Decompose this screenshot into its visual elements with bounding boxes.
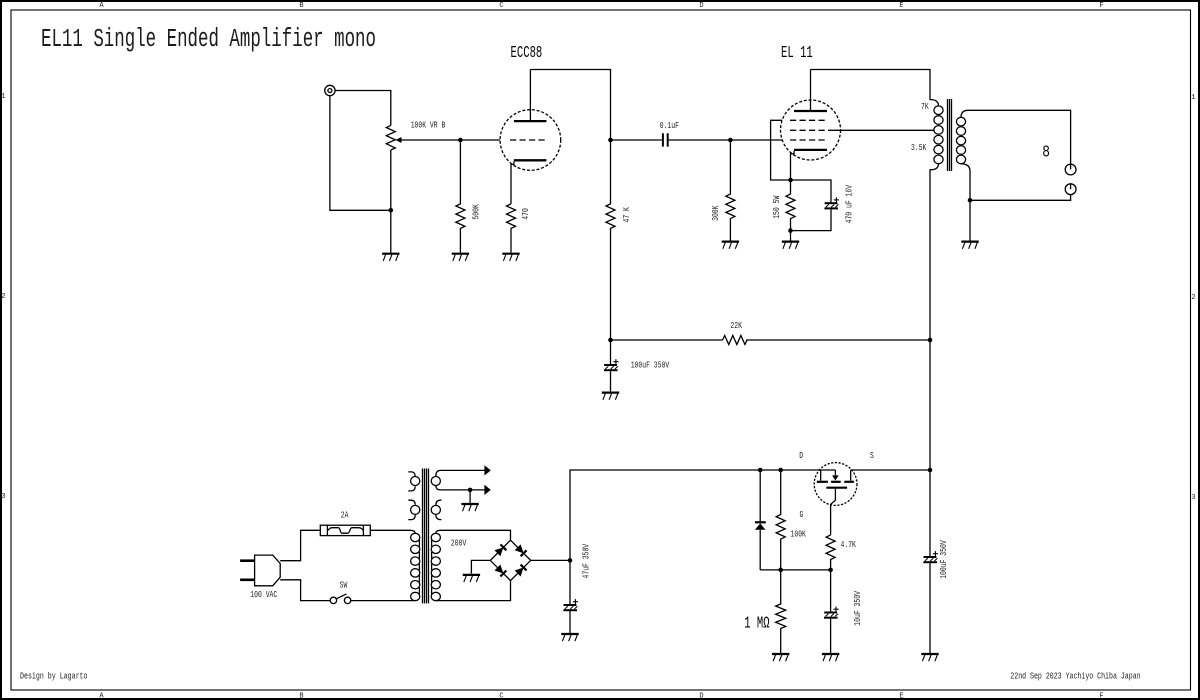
wire g2 to output transformer tap xyxy=(829,129,934,131)
capacitor 0.1uF xyxy=(663,133,668,146)
node reservoir xyxy=(568,558,573,563)
ECC88 grid (dashed) xyxy=(510,139,546,141)
wire g3 tied to cathode xyxy=(771,120,789,180)
wire to ground xyxy=(790,231,792,241)
capacitor 470 uF 16V xyxy=(824,197,839,208)
EL11 plate xyxy=(794,110,827,112)
svg-text:2A: 2A xyxy=(341,510,349,520)
svg-text:C: C xyxy=(499,2,503,10)
svg-text:470: 470 xyxy=(521,208,531,220)
ECC88 plate lead xyxy=(529,70,531,122)
power transformer PT core xyxy=(423,469,429,604)
svg-text:100K: 100K xyxy=(791,530,807,540)
PT right stub winding xyxy=(431,500,441,519)
node grid xyxy=(458,138,463,143)
ECC88 plate xyxy=(514,120,547,122)
wire to 10uF xyxy=(830,570,832,612)
svg-text:470 uF 16V: 470 uF 16V xyxy=(844,184,854,223)
svg-text:200V: 200V xyxy=(451,539,467,549)
svg-text:47uF 350V: 47uF 350V xyxy=(581,543,591,578)
resistor 1 Mohm xyxy=(776,570,786,653)
wire jack sleeve to bottom node xyxy=(330,96,391,211)
svg-text:D: D xyxy=(699,693,703,700)
tube EL11 envelope xyxy=(781,100,841,160)
EL11 g1 (dashed) xyxy=(790,139,827,141)
ground xyxy=(382,254,399,261)
svg-text:F: F xyxy=(1099,2,1103,10)
wire node to coupling cap xyxy=(611,139,662,141)
svg-text:300K: 300K xyxy=(711,205,721,221)
wire 200V bottom to bridge xyxy=(436,581,511,601)
svg-text:100uF 350V: 100uF 350V xyxy=(631,361,670,371)
svg-text:F: F xyxy=(1099,693,1103,700)
fuse 2A xyxy=(320,525,370,535)
zener diode gate protection xyxy=(759,470,761,521)
bridge diode top-right xyxy=(515,544,527,556)
svg-text:D: D xyxy=(799,451,803,461)
PT heater winding (6.3V) xyxy=(431,470,484,490)
arrow heater B xyxy=(484,485,490,495)
bridge diode top-left xyxy=(494,544,506,556)
AC plug 100 VAC xyxy=(255,555,281,586)
ground xyxy=(452,254,469,261)
node pot bottom xyxy=(389,208,394,213)
wire riser to drain rail xyxy=(570,470,835,560)
node rail 100K xyxy=(778,468,783,473)
wire bridge plus to reservoir node xyxy=(531,559,570,561)
node heater ground xyxy=(468,488,473,493)
MOSFET gate lead xyxy=(831,489,836,535)
svg-text:500K: 500K xyxy=(471,204,481,220)
switch SW xyxy=(330,594,351,604)
node cathode xyxy=(788,178,793,183)
OPT secondary top lead to speaker jack xyxy=(961,110,1071,164)
svg-text:EL11 Single Ended Amplifier mo: EL11 Single Ended Amplifier mono xyxy=(41,25,376,54)
wire node to 47uF xyxy=(569,560,571,604)
node rail output xyxy=(928,468,933,473)
MOSFET channel bars xyxy=(817,481,854,483)
wire 10uF to ground xyxy=(830,619,832,653)
svg-text:SW: SW xyxy=(340,581,348,591)
arrow heater A xyxy=(484,465,490,475)
svg-text:22K: 22K xyxy=(730,321,742,331)
ground xyxy=(961,242,978,249)
wire 47uF to ground xyxy=(569,611,571,633)
wire cathode to bypass cap xyxy=(791,180,832,202)
svg-text:8: 8 xyxy=(1042,144,1050,163)
wire 22K to B+ rail xyxy=(746,339,930,341)
svg-text:1: 1 xyxy=(1,93,5,101)
capacitor 47uF 350V xyxy=(563,599,578,610)
svg-text:E: E xyxy=(899,2,903,10)
resistor 300K xyxy=(726,140,735,241)
svg-text:0.1uF: 0.1uF xyxy=(660,121,679,131)
wire 200V top to bridge xyxy=(436,530,511,540)
wire plug to switch xyxy=(280,580,330,601)
wire to ground xyxy=(969,200,971,240)
wire bridge minus to ground xyxy=(471,560,490,573)
svg-text:100 VAC: 100 VAC xyxy=(250,590,277,600)
svg-text:1: 1 xyxy=(1191,94,1195,102)
svg-text:10uF 350V: 10uF 350V xyxy=(853,591,863,626)
svg-text:2: 2 xyxy=(1,293,5,301)
wire jack return xyxy=(970,195,1071,201)
svg-text:3.5K: 3.5K xyxy=(911,143,927,153)
wire gate node xyxy=(760,569,830,571)
ground xyxy=(461,504,478,511)
wire jack to pot top xyxy=(335,91,391,126)
EL11 plate lead xyxy=(810,70,812,112)
wire EL11 plate to output transformer xyxy=(811,70,939,106)
OPT primary bottom lead to B+ rail xyxy=(930,164,939,556)
resistor 22K xyxy=(723,336,748,345)
svg-text:B: B xyxy=(299,2,303,10)
capacitor 100uF 350V xyxy=(604,359,619,370)
MOSFET drain contact xyxy=(820,470,822,481)
node grid EL11 xyxy=(728,138,733,143)
svg-text:100K VR B: 100K VR B xyxy=(411,121,446,131)
node xyxy=(788,228,793,233)
EL11 cathode xyxy=(794,149,827,151)
svg-text:3: 3 xyxy=(1191,494,1195,502)
wire switch to transformer primary bottom xyxy=(351,600,415,602)
ground xyxy=(782,242,799,249)
svg-text:G: G xyxy=(800,510,804,520)
wire grid node to EL11 g1 xyxy=(730,139,782,141)
bridge diode bottom-right xyxy=(515,565,527,577)
wire node to ground xyxy=(390,210,392,252)
wire fuse to transformer primary xyxy=(370,530,415,533)
tube ECC88 envelope xyxy=(500,110,561,171)
svg-text:2: 2 xyxy=(1191,294,1195,302)
capacitor 10uF 350V xyxy=(824,607,839,618)
wire 100uF to ground xyxy=(929,563,931,653)
PT primary winding xyxy=(411,533,420,600)
svg-text:ECC88: ECC88 xyxy=(511,44,543,63)
EL11 g2 (dashed) xyxy=(790,129,829,131)
OPT secondary bottom lead xyxy=(961,164,970,201)
ECC88 cathode xyxy=(514,159,547,161)
wire ECC88 plate top to node xyxy=(530,70,610,141)
pot wiper arrow xyxy=(401,139,460,141)
bridge rectifier frame xyxy=(490,540,530,580)
ground xyxy=(602,393,619,400)
wire node to filter cap xyxy=(610,340,612,364)
svg-text:B: B xyxy=(299,693,303,700)
wire source rail to output node xyxy=(851,469,930,471)
wire wiper to ECC88 grid xyxy=(460,139,500,141)
wire to ground xyxy=(469,490,471,503)
svg-text:47 K: 47 K xyxy=(622,207,632,223)
wire cap to EL11 grid node xyxy=(669,139,731,141)
OPT secondary winding xyxy=(956,117,965,163)
capacitor 100uF 350V output xyxy=(923,551,938,562)
potentiometer 100K VR B xyxy=(386,125,395,150)
resistor 4.7K xyxy=(826,535,835,570)
node secondary return xyxy=(968,198,973,203)
wire node to 22K xyxy=(611,339,723,341)
svg-text:C: C xyxy=(499,693,503,700)
plug prong top xyxy=(240,559,255,562)
svg-text:E: E xyxy=(899,693,903,700)
svg-text:Design by Lagarto: Design by Lagarto xyxy=(20,672,88,682)
speaker jack + xyxy=(1065,164,1076,175)
PT secondary 200V winding xyxy=(431,533,440,600)
node gate divider xyxy=(778,568,783,573)
bridge diode bottom-left xyxy=(494,565,506,577)
ground xyxy=(822,654,839,661)
wire plug to fuse xyxy=(280,530,320,560)
MOSFET substrate arrow xyxy=(834,470,836,475)
svg-text:100uF 350V: 100uF 350V xyxy=(939,540,949,579)
node 47K bottom / decoupling xyxy=(608,338,613,343)
svg-text:4.7K: 4.7K xyxy=(841,540,857,550)
svg-text:7K: 7K xyxy=(921,102,929,112)
wire cap to ground xyxy=(610,371,612,391)
ECC88 cathode lead xyxy=(511,161,514,203)
ground xyxy=(772,654,789,661)
MOSFET Q1 envelope xyxy=(814,463,857,506)
speaker jack - xyxy=(1065,184,1076,195)
svg-text:S: S xyxy=(870,451,874,461)
ground xyxy=(722,242,739,249)
EL11 cathode lead xyxy=(791,151,795,180)
ground xyxy=(921,654,938,661)
wire pot bottom xyxy=(390,150,392,210)
PT left stub winding 2 xyxy=(408,500,420,519)
resistor 47 K xyxy=(606,140,615,340)
node B+ rail xyxy=(928,338,933,343)
wire cap bottom to cathode resistor bottom xyxy=(791,209,832,230)
OPT core xyxy=(948,99,952,171)
PT left stub winding 1 xyxy=(408,472,420,491)
plug prong bottom xyxy=(240,578,255,581)
resistor 150 5W xyxy=(786,180,795,231)
ground xyxy=(502,254,519,261)
svg-text:1 MΩ: 1 MΩ xyxy=(744,614,769,633)
node 4.7K bottom xyxy=(828,568,833,573)
resistor 470 xyxy=(507,204,516,253)
EL11 g3 (dashed) xyxy=(790,119,827,121)
MOSFET gate bar xyxy=(826,487,847,489)
ground xyxy=(463,575,480,582)
resistor 100K xyxy=(776,470,785,570)
input jack J1 xyxy=(325,85,335,95)
MOSFET source contact xyxy=(850,470,852,481)
resistor 500K xyxy=(456,140,465,253)
node rail left xyxy=(758,468,763,473)
svg-text:D: D xyxy=(699,2,703,10)
svg-text:EL 11: EL 11 xyxy=(781,44,813,63)
ground xyxy=(561,634,578,641)
node plate/47K xyxy=(608,138,613,143)
svg-text:22nd Sep 2023 Yachiyo Chiba Ja: 22nd Sep 2023 Yachiyo Chiba Japan xyxy=(1010,672,1140,682)
svg-text:150 5W: 150 5W xyxy=(772,195,782,219)
output transformer OPT primary winding xyxy=(934,106,943,164)
svg-text:3: 3 xyxy=(1,493,5,501)
